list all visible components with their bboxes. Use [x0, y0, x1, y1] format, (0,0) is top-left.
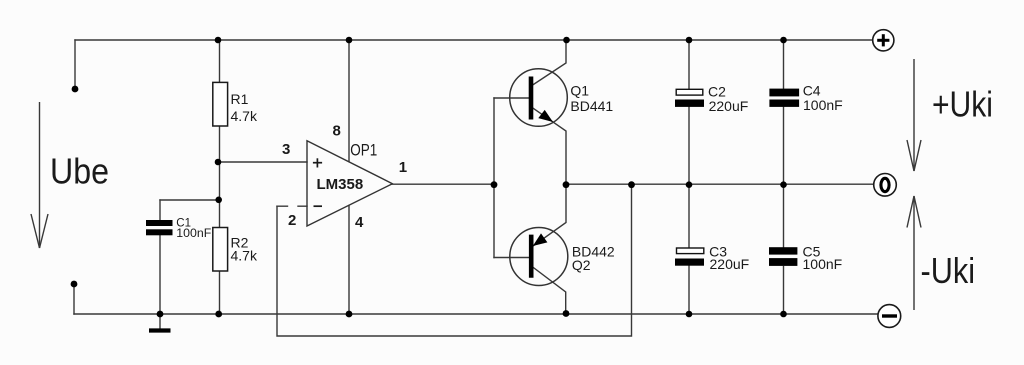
svg-text:2: 2	[288, 212, 296, 229]
svg-text:100nF: 100nF	[803, 256, 843, 272]
svg-text:Q1: Q1	[570, 83, 589, 99]
svg-text:100nF: 100nF	[803, 97, 843, 113]
svg-text:Q2: Q2	[572, 257, 591, 273]
svg-text:R1: R1	[231, 91, 249, 107]
svg-text:4: 4	[355, 214, 364, 231]
svg-text:LM358: LM358	[317, 176, 364, 193]
svg-text:OP1: OP1	[350, 141, 377, 160]
svg-text:C4: C4	[803, 82, 821, 98]
svg-text:+Uki: +Uki	[932, 84, 993, 125]
svg-text:220uF: 220uF	[709, 98, 749, 114]
svg-text:BD441: BD441	[570, 98, 613, 114]
svg-text:4.7k: 4.7k	[231, 248, 258, 264]
svg-text:8: 8	[333, 123, 341, 140]
svg-text:1: 1	[399, 159, 407, 176]
svg-text:4.7k: 4.7k	[231, 108, 258, 124]
svg-text:100nF: 100nF	[176, 228, 211, 240]
svg-text:220uF: 220uF	[710, 256, 750, 272]
svg-text:3: 3	[282, 141, 290, 158]
svg-text:Ube: Ube	[50, 151, 109, 192]
svg-text:C2: C2	[708, 83, 726, 99]
svg-text:-Uki: -Uki	[921, 250, 976, 291]
